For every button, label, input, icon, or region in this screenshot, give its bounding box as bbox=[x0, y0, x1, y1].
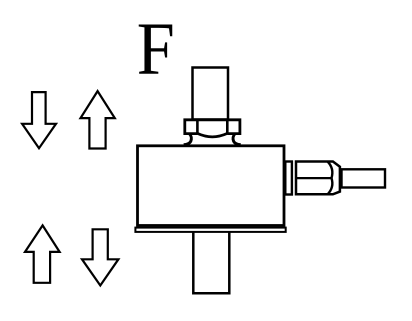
cable stub bbox=[342, 169, 386, 187]
hex mid line bbox=[296, 177, 332, 179]
nut facet line right bbox=[226, 120, 229, 134]
nut facet line left bbox=[196, 120, 199, 134]
arrow down top-left bbox=[22, 92, 56, 148]
hex facet curve bottom bbox=[328, 178, 333, 194]
nut chamfer curve bbox=[197, 133, 227, 136]
arrow down bottom-right bbox=[82, 229, 118, 285]
threaded stud top bbox=[193, 68, 229, 120]
load cell body bbox=[138, 146, 285, 226]
connector flange bbox=[285, 162, 292, 195]
threaded stud bottom bbox=[193, 232, 229, 293]
washer fillet right bbox=[233, 134, 241, 145]
base plate bbox=[135, 228, 285, 232]
svg-text:F: F bbox=[137, 7, 175, 90]
hex nut on stud bbox=[185, 120, 240, 134]
washer fillet left bbox=[184, 134, 192, 145]
arrow up top-right bbox=[81, 91, 115, 148]
hex facet curve top bbox=[328, 162, 333, 179]
arrow up bottom-left bbox=[25, 225, 60, 282]
connector hex body bbox=[296, 162, 340, 195]
